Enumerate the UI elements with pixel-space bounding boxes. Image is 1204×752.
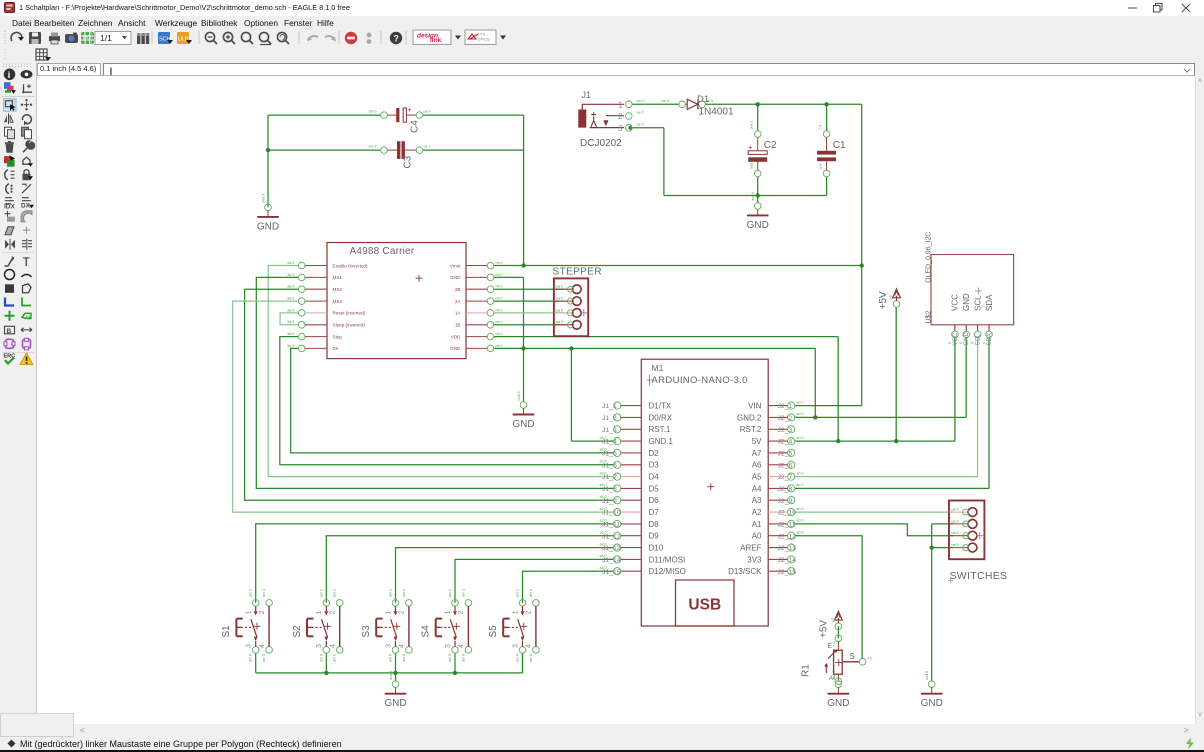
svg-text:1B: 1B (455, 323, 461, 328)
pin R1.E (835, 635, 842, 642)
wire net A2 to SWITCHES.1 (highlighted) (795, 511, 953, 513)
svg-text:2: 2 (259, 611, 266, 615)
pin S2.1 (323, 600, 330, 607)
svg-text:GND: GND (921, 698, 943, 709)
ground GND (384, 671, 406, 710)
pin S1.3 (252, 647, 259, 654)
svg-text:SDA: SDA (987, 333, 993, 345)
transistor S4 pushbutton switch (421, 589, 472, 662)
wire net STEP to D3 (280, 337, 614, 465)
pin M1 left RST.1 J1_3 (614, 426, 621, 433)
svg-text:J2_11: J2_11 (778, 522, 796, 529)
wire net MS2 to D6 (245, 289, 614, 500)
junction bus S3 (393, 671, 397, 675)
pin M1 left GND.1 J1_4 (614, 438, 621, 445)
wire net GND top area (633, 128, 827, 203)
svg-text:3a 0: 3a 0 (287, 285, 294, 289)
svg-text:a3 0: a3 0 (600, 507, 607, 511)
svg-text:A0: A0 (752, 532, 762, 541)
svg-text:pa 0: pa 0 (556, 320, 563, 324)
pin M1 right VIN J2_1 (788, 402, 795, 409)
svg-text:+5V: +5V (819, 620, 830, 638)
svg-text:s 0: s 0 (867, 657, 872, 661)
svg-text:D12/MISO: D12/MISO (649, 567, 686, 576)
svg-text:Enable (inverted): Enable (inverted) (333, 263, 368, 268)
svg-text:a3 0: a3 0 (600, 460, 607, 464)
svg-text:v 0: v 0 (889, 295, 893, 300)
svg-text:U$2: U$2 (926, 311, 933, 324)
svg-text:D8: D8 (649, 520, 660, 529)
ground GND (257, 194, 279, 233)
transistor S1 pushbutton switch (221, 589, 272, 662)
svg-text:am 0: am 0 (516, 654, 520, 662)
svg-text:am 0: am 0 (262, 654, 266, 662)
pin M1 left D1/TX J1_1 (614, 402, 621, 409)
pin S1.1 (252, 600, 259, 607)
junction GND/C3 (266, 148, 270, 152)
svg-text:u 0: u 0 (819, 164, 823, 169)
junction C2 top (756, 102, 760, 106)
svg-text:am 1: am 1 (448, 589, 452, 597)
svg-text:STEPPER: STEPPER (553, 267, 602, 278)
capacitor C2 polarized (748, 121, 777, 177)
svg-text:MS1: MS1 (333, 275, 343, 280)
svg-text:am 1: am 1 (402, 589, 406, 597)
svg-text:GND: GND (747, 220, 769, 231)
wire net D8 to S1 (256, 524, 614, 603)
wire net VMOT top loop (268, 115, 524, 265)
svg-text:J2_9: J2_9 (778, 498, 793, 505)
svg-text:GND: GND (257, 221, 279, 232)
svg-text:GND: GND (827, 698, 849, 709)
svg-text:D2: D2 (649, 449, 660, 458)
svg-text:2: 2 (526, 611, 533, 615)
pin M1 left D0/RX J1_2 (614, 414, 621, 421)
pin M1 left D4 J1_7 (614, 473, 621, 480)
pin M1 right A4 J2_8 (788, 485, 795, 492)
ground GND (827, 671, 849, 710)
svg-text:3: 3 (246, 644, 253, 648)
svg-text:MS2: MS2 (333, 287, 343, 292)
svg-text:DO: DO (83, 35, 91, 41)
pin S5.3 (519, 647, 526, 654)
svg-text:an 0: an 0 (797, 519, 804, 523)
svg-text:2B: 2B (455, 287, 461, 292)
svg-text:A5: A5 (752, 473, 762, 482)
svg-text:und 0: und 0 (389, 671, 393, 680)
pin S4.4 (465, 647, 472, 654)
svg-text:am 0: am 0 (389, 654, 393, 662)
ground GND (921, 671, 943, 710)
pin A4988 left Step (298, 333, 305, 340)
pin M1 right RST.2 J2_3 (788, 426, 795, 433)
pin M1 right D13/SCK J2_15 (788, 568, 795, 575)
svg-text:A6: A6 (752, 461, 762, 470)
svg-text:3: 3 (385, 644, 392, 648)
svg-text:ARDUINO-NANO-3.0: ARDUINO-NANO-3.0 (652, 375, 748, 386)
pin A4988 right 1A (487, 310, 494, 317)
svg-text:3V3: 3V3 (747, 555, 762, 564)
svg-text:mt 0: mt 0 (496, 344, 503, 348)
transistor S3 pushbutton switch (361, 589, 412, 662)
svg-text:3: 3 (445, 644, 452, 648)
svg-text:am 1: am 1 (333, 589, 337, 597)
svg-text:an 0: an 0 (797, 400, 804, 404)
svg-text:1: 1 (246, 611, 253, 615)
wire net RESET-SLEEP tie (highlighted) (280, 313, 298, 325)
pin M1 right 3V3 J2_14 (788, 556, 795, 563)
svg-text:Sleep (inverted): Sleep (inverted) (333, 323, 366, 328)
svg-text:am 1: am 1 (389, 589, 393, 597)
svg-text:e 0: e 0 (832, 642, 836, 647)
svg-text:AB: AB (25, 315, 32, 321)
pin SWITCHES.3 (949, 535, 968, 537)
pin M1 left D7 J1_10 (614, 508, 621, 515)
pin A4988 right 2B (487, 286, 494, 293)
svg-text:a3 0: a3 0 (600, 566, 607, 570)
svg-text:SDA: SDA (985, 294, 994, 311)
svg-text:1/1: 1/1 (100, 33, 112, 43)
transistor S5 pushbutton switch (488, 589, 539, 662)
svg-text:VIN: VIN (748, 402, 762, 411)
svg-text:2A: 2A (455, 299, 462, 304)
svg-text:J2_7: J2_7 (778, 474, 793, 481)
pin M1 right A6 J2_6 (788, 461, 795, 468)
svg-text:link: link (430, 37, 442, 44)
svg-text:+: + (407, 105, 412, 114)
svg-text:mt 0: mt 0 (496, 308, 503, 312)
svg-text:GND.2: GND.2 (737, 413, 762, 422)
svg-text:am 1: am 1 (516, 589, 520, 597)
pin A4988 right 1B (487, 322, 494, 329)
svg-text:T: T (23, 255, 31, 269)
pin S4.3 (452, 647, 459, 654)
pin J1.1 (626, 101, 633, 108)
svg-text:RST.1: RST.1 (649, 425, 671, 434)
svg-text:a3 0: a3 0 (600, 483, 607, 487)
svg-text:D6: D6 (649, 496, 660, 505)
svg-text:pa 0: pa 0 (952, 531, 959, 535)
wire net from J1.1 through D1 to caps (632, 104, 862, 130)
pin M1 right AREF J2_13 (788, 544, 795, 551)
wire bus GND tap (395, 673, 397, 681)
svg-text:RST.2: RST.2 (740, 425, 762, 434)
wire net GND SWITCHES.2/.4 (932, 524, 953, 681)
svg-text:S2: S2 (292, 625, 303, 638)
svg-text:C1: C1 (833, 140, 846, 151)
capacitor C1 (817, 125, 846, 177)
pin D1 cathode (699, 101, 706, 108)
connector SWITCHES 4-pin header (948, 501, 1007, 584)
svg-text:und 0: und 0 (832, 671, 836, 680)
svg-text:J1_2: J1_2 (602, 415, 617, 422)
svg-text:SCL: SCL (976, 333, 982, 345)
pin SWITCHES.1 (949, 511, 968, 513)
svg-text:D3: D3 (649, 461, 660, 470)
pin M1 right 5V J2_4 (788, 438, 795, 445)
wire net 2A to STEPPER.2 (494, 300, 567, 302)
svg-text:MS3: MS3 (333, 299, 343, 304)
pin OLED GND (965, 325, 967, 331)
svg-text:1: 1 (385, 611, 392, 615)
wire net D12 to S5 (523, 571, 614, 603)
svg-text:VCC: VCC (953, 332, 959, 345)
pin S4.2 (465, 600, 472, 607)
wire net D11 to S4 (455, 559, 614, 603)
wire net D10 to S3 (396, 548, 614, 603)
svg-text:IDX: IDX (4, 204, 16, 211)
svg-text:3: 3 (512, 644, 519, 648)
+5V supply symbol (819, 611, 843, 638)
svg-text:A3: A3 (752, 496, 762, 505)
svg-text:neg 0: neg 0 (750, 160, 754, 169)
svg-text:i: i (8, 70, 11, 80)
pin S2.4 (336, 647, 343, 654)
svg-text:GND: GND (512, 419, 534, 430)
svg-text:S4: S4 (421, 625, 432, 638)
pin M1 right A3 J2_9 (788, 497, 795, 504)
pin A4988 left Dir (298, 345, 305, 352)
pin M1 left D10 J1_13 (614, 544, 621, 551)
ground GND (512, 392, 534, 431)
svg-text:SPICE: SPICE (478, 37, 490, 42)
svg-text:+: + (748, 142, 753, 151)
svg-text:B: B (7, 328, 12, 335)
wire net A0 to R1 wiper (795, 536, 862, 659)
capacitor C4 (369, 105, 431, 133)
svg-text:J2_6: J2_6 (778, 462, 793, 469)
svg-text:a3 0: a3 0 (600, 542, 607, 546)
svg-text:A4988 Carrier: A4988 Carrier (350, 246, 415, 257)
svg-text:an 0: an 0 (797, 507, 804, 511)
svg-text:4: 4 (259, 644, 266, 648)
svg-text:J1_3: J1_3 (602, 427, 617, 434)
svg-text:DCJ0202: DCJ0202 (580, 138, 622, 149)
pin S1.2 (266, 600, 273, 607)
svg-text:pa 0: pa 0 (952, 519, 959, 523)
svg-text:a3 0: a3 0 (600, 519, 607, 523)
svg-text:om 1: om 1 (369, 145, 377, 149)
svg-text:SCL: SCL (973, 295, 982, 311)
svg-text:Step: Step (333, 334, 343, 339)
svg-text:pos 1: pos 1 (750, 121, 754, 130)
pin S3.3 (392, 647, 399, 654)
svg-text:D0/RX: D0/RX (649, 413, 673, 422)
wire net +5V to R1 (837, 626, 839, 638)
svg-text:AREF: AREF (740, 544, 761, 553)
svg-text:1A: 1A (455, 311, 462, 316)
svg-text:J2_15: J2_15 (778, 569, 797, 576)
pin M1 left D8 J1_11 (614, 520, 621, 527)
transistor S2 pushbutton switch (292, 589, 343, 662)
svg-text:VDD: VDD (451, 334, 461, 339)
svg-text:+5V: +5V (878, 291, 889, 309)
svg-text:D9: D9 (649, 532, 660, 541)
pin S1.4 (266, 647, 273, 654)
resistor R1 trimmer potentiometer (801, 635, 872, 684)
svg-text:4: 4 (399, 644, 406, 648)
svg-text:GND: GND (964, 332, 970, 346)
svg-text:D10: D10 (649, 544, 664, 553)
pin M1 right A0 J2_12 (788, 532, 795, 539)
svg-text:am 0: am 0 (249, 654, 253, 662)
wire net VMOT row A4988 Vmot to VIN corner (494, 104, 862, 405)
pin M1 left D5 J1_8 (614, 485, 621, 492)
svg-text:3a 0: 3a 0 (287, 308, 294, 312)
svg-text:an 0: an 0 (797, 531, 804, 535)
svg-text:an 0: an 0 (797, 436, 804, 440)
svg-text:VCC: VCC (951, 294, 960, 311)
junction GND.2 (813, 415, 817, 419)
pin A4988 right VDD (487, 333, 494, 340)
wire net A4 to OLED SDA (795, 338, 989, 489)
svg-text:pa 0: pa 0 (556, 308, 563, 312)
svg-text:und 0: und 0 (262, 194, 266, 203)
svg-text:an 0: an 0 (797, 483, 804, 487)
svg-text:GND: GND (962, 293, 971, 311)
connector J1 DCJ0202 barrel jack (578, 90, 644, 149)
wire net GND A4988 rows to Arduino GND.1 and GND.2 (494, 277, 966, 441)
svg-text:am 1: am 1 (262, 589, 266, 597)
junction VMOT/C4C3 (521, 263, 525, 267)
wire net DIR to D2 (291, 348, 614, 453)
svg-text:3a 0: 3a 0 (287, 332, 294, 336)
svg-text:J1_1: J1_1 (602, 403, 617, 410)
svg-text:4: 4 (526, 644, 533, 648)
USB port block (676, 580, 735, 626)
svg-text:a3 0: a3 0 (600, 448, 607, 452)
pin A4988 right Vmot (487, 262, 494, 269)
svg-text:J2_5: J2_5 (778, 451, 793, 458)
svg-text:5V: 5V (752, 437, 762, 446)
svg-text:USB: USB (688, 597, 721, 614)
svg-text:S5: S5 (488, 625, 499, 638)
svg-text:A4: A4 (752, 484, 762, 493)
svg-text:ue 0: ue 0 (637, 122, 644, 126)
svg-text:pa 0: pa 0 (952, 508, 959, 512)
svg-text:mt 0: mt 0 (496, 285, 503, 289)
pin STEPPER.2 (554, 300, 573, 302)
svg-text:3a 0: 3a 0 (287, 296, 294, 300)
svg-text:am 0: am 0 (333, 654, 337, 662)
svg-text:und 0: und 0 (751, 192, 755, 201)
svg-text:GND: GND (384, 698, 406, 709)
pin M1 right A1 J2_11 (788, 520, 795, 527)
svg-text:am 1: am 1 (461, 589, 465, 597)
IC M1 ARDUINO-NANO-3.0 (600, 359, 804, 626)
junction bus S2 (324, 671, 328, 675)
pin STEPPER.1 (554, 288, 573, 290)
svg-text:mt 0: mt 0 (496, 296, 503, 300)
svg-text:2: 2 (618, 112, 623, 121)
svg-text:am 1: am 1 (529, 589, 533, 597)
svg-text:D11/MOSI: D11/MOSI (649, 555, 686, 564)
svg-text:a3 0: a3 0 (600, 471, 607, 475)
svg-text:J2_10: J2_10 (778, 510, 797, 517)
+5V supply symbol (878, 289, 900, 310)
svg-text:D4: D4 (649, 473, 660, 482)
svg-text:1: 1 (512, 611, 519, 615)
svg-text:am 1: am 1 (249, 589, 253, 597)
svg-text:D7: D7 (649, 508, 660, 517)
svg-text:Reset (inverted): Reset (inverted) (333, 311, 366, 316)
svg-text:OLED_0.96_I2C: OLED_0.96_I2C (926, 232, 933, 283)
svg-text:3: 3 (618, 124, 623, 133)
svg-text:und 0: und 0 (925, 671, 929, 680)
svg-text:J2_12: J2_12 (778, 533, 797, 540)
pin M1 right GND.2 J2_2 (788, 414, 795, 421)
junction bus S4 (453, 671, 457, 675)
pin S4.1 (452, 600, 459, 607)
wire net 1A to STEPPER.3 (highlighted) (494, 312, 567, 314)
junction J1 pin3 (629, 126, 633, 130)
svg-text:GND: GND (450, 346, 461, 351)
svg-text:M1: M1 (652, 363, 664, 373)
svg-text:J2_3: J2_3 (778, 427, 793, 434)
svg-text:mt 0: mt 0 (496, 261, 503, 265)
svg-text:mt 0: mt 0 (496, 320, 503, 324)
svg-text:1: 1 (316, 611, 323, 615)
svg-text:pa 0: pa 0 (952, 543, 959, 547)
svg-text:J2_2: J2_2 (778, 415, 793, 422)
svg-text:und 0: und 0 (517, 392, 521, 401)
svg-text:a3 0: a3 0 (600, 495, 607, 499)
wire net 2B to STEPPER.1 (494, 288, 567, 290)
svg-text:S1: S1 (221, 625, 232, 638)
svg-text:A7: A7 (752, 449, 762, 458)
IC U$2 OLED_0.96_I2C display (926, 232, 1014, 346)
svg-text:A1: A1 (752, 520, 762, 529)
svg-text:am 0: am 0 (402, 654, 406, 662)
pin D1 anode (679, 101, 686, 108)
wire net GND left vertical to GND symbol (267, 115, 269, 207)
svg-text:C3: C3 (403, 155, 414, 168)
pin OLED SDA (988, 325, 990, 331)
pin R1.S (859, 659, 866, 666)
svg-text:am 0: am 0 (319, 654, 323, 662)
svg-text:DX: DX (21, 203, 31, 210)
svg-text:om 0: om 0 (661, 99, 669, 103)
svg-text:1: 1 (618, 100, 623, 109)
junction GND row A (521, 346, 525, 350)
svg-text:2: 2 (330, 611, 337, 615)
svg-text:a3 0: a3 0 (600, 436, 607, 440)
pin M1 right A5 J2_7 (788, 473, 795, 480)
pin M1 left D3 J1_6 (614, 461, 621, 468)
svg-text:D13/SCK: D13/SCK (728, 567, 762, 576)
pin A4988 left MS2 (298, 286, 305, 293)
svg-text:1: 1 (445, 611, 452, 615)
wire net switch common GND bus (256, 653, 523, 673)
svg-text:4: 4 (330, 644, 337, 648)
junction C2 bottom GND (756, 193, 760, 197)
pin OLED VCC (954, 325, 956, 331)
svg-text:C2: C2 (764, 140, 777, 151)
wire net 1B to STEPPER.4 (494, 324, 567, 326)
svg-text:o 1: o 1 (819, 125, 823, 130)
svg-text:C4: C4 (410, 120, 421, 133)
svg-text:GND.1: GND.1 (649, 437, 674, 446)
svg-text:v 0: v 0 (831, 618, 835, 623)
pin A4988 right 2A (487, 298, 494, 305)
wire net MS1 to D5 (256, 277, 613, 488)
svg-text:0: 0 (971, 342, 975, 344)
svg-text:D1/TX: D1/TX (649, 402, 672, 411)
pin SWITCHES.2 (949, 523, 968, 525)
wire net D9 to S2 (326, 536, 613, 603)
svg-text:am 0: am 0 (448, 654, 452, 662)
svg-text:2: 2 (399, 611, 406, 615)
